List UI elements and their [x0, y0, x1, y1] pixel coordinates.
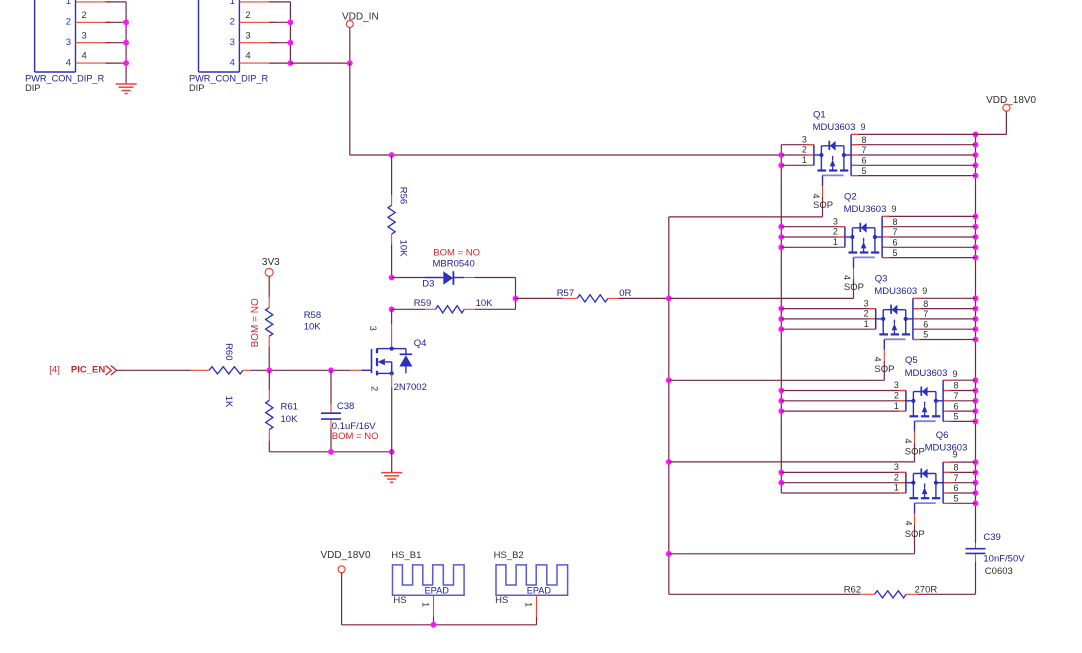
svg-text:SOP: SOP: [905, 529, 925, 540]
pin name Q1 SOP: [813, 200, 833, 211]
transistor Q6 MDU3603: [906, 462, 943, 503]
svg-text:10K: 10K: [281, 414, 299, 425]
wire Q1 gate (pin 4) to bus: [669, 175, 823, 217]
junction dots drain bus: [973, 132, 979, 507]
node R59 left junction: [389, 306, 395, 312]
svg-text:10K: 10K: [304, 321, 322, 332]
pin number Q3-4: [873, 357, 883, 362]
svg-text:MDU3603: MDU3603: [844, 204, 887, 215]
pin number Q5-9: [953, 369, 958, 379]
wire drain bus vertical (VDD_18V0): [975, 134, 977, 543]
label Q4: [414, 338, 427, 349]
svg-text:C39: C39: [983, 532, 1000, 543]
resistor R62: [669, 591, 976, 598]
label R58 BOM = NO: [250, 298, 261, 347]
junction dots connector-right: [288, 19, 294, 66]
svg-text:2: 2: [864, 309, 869, 319]
svg-text:SOP: SOP: [874, 364, 894, 375]
pin number Q1-4: [811, 193, 821, 198]
svg-text:1: 1: [66, 0, 71, 7]
svg-text:D3: D3: [422, 278, 434, 289]
wire Q2 source pins 3,2,1 stubs: [781, 227, 845, 248]
pin number Q2-9: [892, 204, 897, 214]
heatsink HS_B1: [393, 565, 465, 595]
wire bottom rail R61/C38/Q4-source: [269, 451, 391, 453]
label Q4 2N7002: [394, 382, 427, 393]
wire Q1 source pins 3,2,1 stubs: [781, 145, 814, 166]
wire VDD_IN vertical: [349, 63, 351, 155]
svg-text:4: 4: [230, 57, 235, 68]
wire Q6 gate (pin 4) to bus: [669, 503, 915, 554]
label Q6: [936, 430, 949, 441]
svg-text:3: 3: [894, 380, 899, 390]
wire Q3 drain pins 9,8,7,6,5 stubs: [913, 298, 976, 339]
svg-text:3V3: 3V3: [262, 257, 280, 268]
wire Q6 drain pins 9,8,7,6,5 stubs: [943, 462, 975, 503]
label R56 value 10K: [397, 240, 408, 258]
svg-text:Q2: Q2: [844, 191, 857, 202]
junction dots bottom rail: [328, 449, 395, 455]
connector right labels: [189, 73, 268, 93]
svg-text:SOP: SOP: [813, 200, 833, 211]
pin numbers Q2 3,2,1: [833, 216, 838, 247]
svg-text:3: 3: [864, 298, 869, 308]
svg-text:EPAD: EPAD: [425, 586, 450, 596]
label HS_B1 HS: [393, 595, 406, 606]
svg-text:4: 4: [82, 51, 87, 62]
label Q1 MDU3603: [813, 122, 856, 133]
svg-text:5: 5: [954, 494, 959, 504]
svg-text:2: 2: [66, 17, 71, 28]
wire Q3 source pins 3,2,1 stubs: [781, 309, 875, 330]
svg-text:R59: R59: [414, 298, 431, 309]
label Q5 MDU3603: [905, 368, 948, 379]
svg-text:EPAD: EPAD: [527, 586, 552, 596]
label HS_B2: [494, 550, 524, 561]
svg-text:1: 1: [524, 602, 534, 607]
junction dots source bus: [778, 152, 784, 486]
capacitor C39: [966, 543, 986, 594]
svg-text:7: 7: [954, 391, 959, 401]
label R61 value 10K: [281, 414, 299, 425]
wire Q1 drain pins 9,8,7,6,5 stubs: [851, 134, 975, 175]
svg-text:270R: 270R: [915, 584, 938, 595]
label Q3 MDU3603: [874, 286, 917, 297]
pin name Q3 SOP: [874, 364, 894, 375]
pin name Q6 SOP: [905, 529, 925, 540]
ground (below left connector): [116, 84, 137, 94]
pin numbers Q6 3,2,1: [894, 462, 899, 493]
pin number HS_B2-1: [524, 602, 534, 607]
wire VDD_18V0 bottom rail: [342, 573, 537, 625]
label D3 MBR0540: [433, 259, 475, 270]
svg-text:6: 6: [862, 156, 867, 166]
transistor Q1 MDU3603: [814, 134, 851, 175]
svg-text:9: 9: [953, 450, 958, 460]
svg-text:6: 6: [923, 319, 928, 329]
svg-text:1: 1: [802, 155, 807, 165]
label R59: [414, 298, 431, 309]
svg-text:1: 1: [894, 401, 899, 411]
pin numbers Q2 8,7,6,5: [893, 217, 898, 258]
wire Q4 source to ground: [391, 452, 393, 473]
svg-text:2: 2: [82, 10, 87, 21]
svg-text:9: 9: [953, 369, 958, 379]
wire source bus vertical (VDD_IN): [780, 145, 782, 493]
svg-text:DIP: DIP: [189, 83, 204, 93]
wire VDD_18V0 to bus: [976, 111, 1007, 134]
svg-text:1: 1: [833, 237, 838, 247]
label C39: [983, 532, 1000, 543]
svg-text:SOP: SOP: [905, 447, 925, 458]
svg-text:VDD_18V0: VDD_18V0: [321, 550, 371, 561]
svg-text:R58: R58: [304, 310, 321, 321]
svg-text:3: 3: [368, 326, 378, 331]
resistor R58: [266, 276, 273, 370]
connector left labels: [25, 73, 104, 93]
wire Q6 source pins 3,2,1 stubs: [781, 472, 906, 493]
svg-text:C38: C38: [337, 401, 354, 412]
transistor Q5 MDU3603: [906, 380, 943, 421]
svg-text:Q5: Q5: [905, 355, 918, 366]
svg-text:Q3: Q3: [875, 273, 888, 284]
node D3 anode junction: [389, 275, 395, 281]
wire HS_B2 pin: [536, 595, 538, 625]
svg-text:3: 3: [66, 37, 71, 48]
svg-text:MBR0540: MBR0540: [433, 259, 475, 270]
diode D3 MBR0540: [392, 271, 516, 285]
node D3/R59 output: [513, 296, 519, 302]
svg-text:4: 4: [811, 193, 821, 198]
svg-text:9: 9: [922, 286, 927, 296]
off-page connector PIC_EN: [49, 365, 116, 376]
node R58/R60/R61: [266, 367, 272, 373]
resistor R56: [388, 155, 395, 278]
label Q1: [813, 109, 826, 120]
svg-text:4: 4: [904, 520, 914, 525]
svg-text:PWR_CON_DIP_R: PWR_CON_DIP_R: [25, 73, 104, 83]
label C38 BOM = NO: [332, 431, 379, 442]
label R56: [397, 187, 408, 204]
svg-text:BOM = NO: BOM = NO: [250, 298, 261, 347]
transistor Q3 MDU3603: [876, 298, 913, 339]
svg-text:MDU3603: MDU3603: [905, 368, 948, 379]
transistor Q2 MDU3603: [845, 216, 882, 257]
svg-text:7: 7: [862, 145, 867, 155]
svg-text:3: 3: [802, 134, 807, 144]
wire connector-right vertical join: [289, 2, 291, 63]
svg-text:2: 2: [802, 145, 807, 155]
svg-text:7: 7: [954, 473, 959, 483]
svg-text:2: 2: [894, 391, 899, 401]
wire Q5 gate (pin 4) to bus: [669, 421, 915, 462]
svg-text:Q6: Q6: [936, 430, 949, 441]
svg-text:MDU3603: MDU3603: [874, 286, 917, 297]
svg-text:9: 9: [892, 204, 897, 214]
pin number Q6-9: [953, 450, 958, 460]
svg-text:5: 5: [923, 330, 928, 340]
label R62: [844, 584, 861, 595]
power flag 3V3: [262, 257, 280, 276]
capacitor C38: [321, 370, 341, 452]
svg-text:2: 2: [369, 386, 379, 391]
label HS_B2 HS: [495, 595, 508, 606]
pin numbers Q3 8,7,6,5: [923, 299, 928, 340]
label D3: [422, 278, 434, 289]
pin number Q5-4: [903, 438, 913, 443]
svg-text:R60: R60: [223, 343, 234, 360]
pin numbers Q5 3,2,1: [894, 380, 899, 411]
power flag VDD_18V0 (bottom): [321, 550, 371, 573]
svg-text:HS: HS: [495, 595, 508, 606]
label Q2 MDU3603: [844, 204, 887, 215]
svg-text:4: 4: [842, 275, 852, 280]
svg-text:HS: HS: [393, 595, 406, 606]
svg-text:[4]: [4]: [49, 365, 60, 376]
junction dots connector-left: [123, 19, 129, 66]
svg-text:6: 6: [954, 483, 959, 493]
label C39 footprint C0603: [985, 566, 1013, 577]
svg-text:3: 3: [833, 216, 838, 226]
wire VDD_IN rail to Q1: [350, 154, 782, 156]
svg-text:0R: 0R: [619, 288, 631, 299]
label Q5: [905, 355, 918, 366]
pin numbers Q1 8,7,6,5: [862, 135, 867, 176]
svg-text:BOM = NO: BOM = NO: [332, 431, 379, 442]
svg-text:5: 5: [862, 166, 867, 176]
wire Q2 gate (pin 4) to bus: [669, 257, 854, 298]
svg-text:8: 8: [893, 217, 898, 227]
label R62 value 270R: [915, 584, 938, 595]
svg-text:2: 2: [833, 227, 838, 237]
label R60: [223, 343, 234, 360]
pin name Q2 SOP: [844, 282, 864, 293]
svg-text:2: 2: [894, 472, 899, 482]
svg-text:PWR_CON_DIP_R: PWR_CON_DIP_R: [189, 73, 268, 83]
pin numbers Q3 3,2,1: [864, 298, 869, 329]
svg-text:1: 1: [230, 0, 235, 7]
svg-text:1: 1: [894, 483, 899, 493]
svg-text:4: 4: [66, 57, 71, 68]
wire gate bus vertical: [668, 217, 670, 594]
pin number Q1-9: [861, 122, 866, 132]
label R61: [281, 402, 298, 413]
svg-text:4: 4: [903, 438, 913, 443]
label C38 value 0.1uF/16V: [332, 421, 376, 432]
svg-text:4: 4: [873, 357, 883, 362]
label R58: [304, 310, 321, 321]
svg-text:3: 3: [230, 37, 235, 48]
svg-text:Q4: Q4: [414, 338, 427, 349]
pin name Q5 SOP: [905, 447, 925, 458]
svg-text:2N7002: 2N7002: [394, 382, 427, 393]
label D3 BOM = NO: [433, 247, 480, 258]
svg-text:8: 8: [923, 299, 928, 309]
pin number Q2-4: [842, 275, 852, 280]
pin number Q6-4: [904, 520, 914, 525]
svg-text:C0603: C0603: [985, 566, 1013, 577]
svg-text:HS_B2: HS_B2: [494, 550, 524, 561]
svg-text:10K: 10K: [397, 240, 408, 258]
pin number Q4-2: [369, 386, 379, 391]
wire Q5 source pins 3,2,1 stubs: [781, 391, 906, 412]
node HS_B1 pin junction: [431, 622, 437, 628]
wire connector-left vertical join: [125, 2, 127, 84]
resistor R60: [116, 367, 350, 374]
svg-text:HS_B1: HS_B1: [391, 550, 421, 561]
svg-text:MDU3603: MDU3603: [925, 442, 968, 453]
svg-text:8: 8: [954, 463, 959, 473]
svg-text:3: 3: [894, 462, 899, 472]
connector J? PWR_CON_DIP_R (right): [199, 0, 291, 72]
label R58 value 10K: [304, 321, 322, 332]
svg-text:5: 5: [954, 412, 959, 422]
ground (below Q4): [381, 473, 402, 483]
label R57 value 0R: [619, 288, 631, 299]
label Q6 MDU3603: [925, 442, 968, 453]
pin number HS_B1-1: [420, 602, 430, 607]
pin number Q4-3: [368, 326, 378, 331]
node C38 tap: [328, 367, 334, 373]
svg-text:DIP: DIP: [25, 83, 40, 93]
svg-text:8: 8: [862, 135, 867, 145]
svg-text:1: 1: [864, 319, 869, 329]
svg-text:R61: R61: [281, 402, 298, 413]
node VDD_IN junction: [347, 60, 353, 66]
svg-text:R56: R56: [397, 187, 408, 204]
power flag VDD_18V0 (top): [986, 95, 1036, 111]
wire D3/R59 right join: [515, 278, 517, 310]
pin name HS_B2 EPAD: [527, 586, 552, 596]
wire pin4 to VDD_IN: [290, 62, 349, 64]
svg-text:9: 9: [861, 122, 866, 132]
svg-text:Q1: Q1: [813, 109, 826, 120]
svg-text:4: 4: [245, 51, 250, 62]
svg-text:2: 2: [245, 10, 250, 21]
svg-text:10nF/50V: 10nF/50V: [983, 554, 1025, 565]
wire Q3 gate (pin 4) to bus: [669, 339, 885, 380]
label HS_B1: [391, 550, 421, 561]
svg-text:2: 2: [230, 17, 235, 28]
svg-text:6: 6: [893, 238, 898, 248]
svg-text:R57: R57: [557, 288, 574, 299]
svg-text:R62: R62: [844, 584, 861, 595]
resistor R57: [516, 295, 669, 302]
wire Q5 drain pins 9,8,7,6,5 stubs: [943, 380, 975, 421]
pin number Q3-9: [922, 286, 927, 296]
resistor R61: [266, 370, 273, 452]
label R59 value 10K: [476, 298, 494, 309]
svg-text:1K: 1K: [223, 396, 234, 408]
label C38: [337, 401, 354, 412]
svg-text:8: 8: [954, 381, 959, 391]
svg-text:MDU3603: MDU3603: [813, 122, 856, 133]
wire Q2 drain pins 9,8,7,6,5 stubs: [882, 216, 975, 257]
wire HS_B1 pin: [433, 595, 435, 625]
pin name HS_B1 EPAD: [425, 586, 450, 596]
wire VDD_IN down: [349, 28, 351, 64]
connector J? PWR_CON_DIP_R (left): [35, 0, 127, 72]
heatsink HS_B2: [496, 565, 568, 595]
power flag VDD_IN: [342, 12, 379, 28]
label C39 value 10nF/50V: [983, 554, 1025, 565]
svg-text:3: 3: [82, 30, 87, 41]
label Q2: [844, 191, 857, 202]
svg-text:3: 3: [245, 30, 250, 41]
svg-text:6: 6: [954, 401, 959, 411]
junction dots gate bus: [666, 296, 672, 557]
pin numbers Q1 3,2,1: [802, 134, 807, 165]
pin numbers Q5 8,7,6,5: [954, 381, 959, 422]
node R56 tap: [389, 152, 395, 158]
svg-text:5: 5: [893, 248, 898, 258]
resistor R59: [392, 306, 516, 313]
svg-text:10K: 10K: [476, 298, 494, 309]
svg-text:SOP: SOP: [844, 282, 864, 293]
transistor Q4 2N7002: [350, 347, 412, 452]
label R60 value 1K: [223, 396, 234, 408]
label Q3: [875, 273, 888, 284]
wire Q4 drain: [391, 309, 393, 348]
svg-text:PIC_EN: PIC_EN: [71, 365, 105, 376]
label R57: [557, 288, 574, 299]
pin numbers Q6 8,7,6,5: [954, 463, 959, 504]
svg-text:7: 7: [893, 227, 898, 237]
svg-text:BOM = NO: BOM = NO: [433, 247, 480, 258]
svg-text:1: 1: [420, 602, 430, 607]
svg-text:7: 7: [923, 309, 928, 319]
svg-text:VDD_18V0: VDD_18V0: [986, 95, 1036, 106]
